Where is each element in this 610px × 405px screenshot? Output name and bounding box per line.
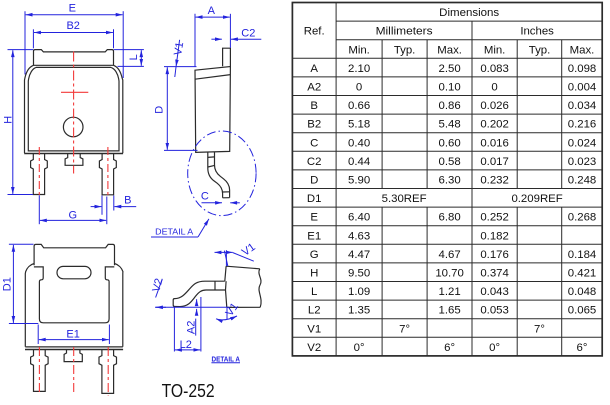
angle V2 xyxy=(150,277,166,307)
svg-text:D: D xyxy=(310,175,318,187)
svg-text:6°: 6° xyxy=(577,342,588,354)
svg-text:D1: D1 xyxy=(1,277,13,291)
svg-text:C2: C2 xyxy=(241,27,255,39)
svg-text:H: H xyxy=(310,268,318,280)
svg-text:V1: V1 xyxy=(172,41,186,56)
dimension G xyxy=(39,195,107,224)
svg-text:L2: L2 xyxy=(308,305,321,317)
angle V1 bottom xyxy=(216,301,241,320)
svg-text:0.252: 0.252 xyxy=(480,212,509,224)
svg-text:7°: 7° xyxy=(399,323,410,335)
svg-text:0.202: 0.202 xyxy=(480,119,509,131)
svg-text:Min.: Min. xyxy=(348,44,370,56)
dimensions table xyxy=(292,3,602,356)
svg-text:Min.: Min. xyxy=(484,44,506,56)
svg-text:DETAIL A: DETAIL A xyxy=(155,228,194,237)
dimension H xyxy=(3,50,34,195)
svg-text:E1: E1 xyxy=(66,329,79,341)
svg-text:0.209REF: 0.209REF xyxy=(511,193,562,205)
svg-text:4.47: 4.47 xyxy=(348,249,370,261)
svg-text:0.66: 0.66 xyxy=(348,100,370,112)
svg-text:D1: D1 xyxy=(307,193,322,205)
svg-text:0: 0 xyxy=(356,82,362,94)
svg-text:V2: V2 xyxy=(307,342,321,354)
svg-text:0.043: 0.043 xyxy=(480,286,509,298)
svg-text:0.016: 0.016 xyxy=(480,137,509,149)
svg-text:A2: A2 xyxy=(186,321,198,334)
svg-text:E1: E1 xyxy=(307,230,321,242)
svg-text:C2: C2 xyxy=(307,156,322,168)
svg-text:Dimensions: Dimensions xyxy=(439,7,499,19)
svg-text:L2: L2 xyxy=(180,339,192,351)
svg-text:6°: 6° xyxy=(444,342,455,354)
seating plane line xyxy=(155,306,229,308)
detail A lead drawing xyxy=(173,266,261,307)
svg-text:E: E xyxy=(310,212,318,224)
dimension L2 xyxy=(174,297,201,352)
svg-text:5.48: 5.48 xyxy=(439,119,461,131)
dimension L xyxy=(114,50,144,67)
svg-text:0.098: 0.098 xyxy=(568,63,597,75)
svg-text:9.50: 9.50 xyxy=(348,268,370,280)
svg-text:0.184: 0.184 xyxy=(568,249,597,261)
dimension C xyxy=(201,191,240,203)
svg-text:6.30: 6.30 xyxy=(439,175,461,187)
svg-text:Millimeters: Millimeters xyxy=(376,26,433,38)
svg-text:B2: B2 xyxy=(307,119,321,131)
svg-text:DETAIL A: DETAIL A xyxy=(212,354,241,363)
svg-text:0.004: 0.004 xyxy=(568,82,597,94)
svg-text:L: L xyxy=(311,286,317,298)
svg-text:0.421: 0.421 xyxy=(568,268,597,280)
svg-text:A: A xyxy=(208,5,216,17)
svg-text:0.60: 0.60 xyxy=(439,137,461,149)
svg-text:A: A xyxy=(310,63,318,75)
svg-text:D: D xyxy=(154,106,166,114)
dimension E1 xyxy=(38,325,109,345)
svg-text:0.023: 0.023 xyxy=(568,156,597,168)
svg-text:0.026: 0.026 xyxy=(480,100,509,112)
svg-text:TO-252: TO-252 xyxy=(162,381,215,400)
dimension D1 xyxy=(1,244,38,323)
svg-text:2.50: 2.50 xyxy=(439,63,461,75)
svg-text:10.70: 10.70 xyxy=(435,268,464,280)
detail ellipse xyxy=(188,131,256,216)
angle V1 side xyxy=(172,40,186,77)
svg-text:V1: V1 xyxy=(307,323,321,335)
svg-text:5.30REF: 5.30REF xyxy=(382,193,427,205)
svg-text:4.67: 4.67 xyxy=(439,249,461,261)
dimension A xyxy=(195,5,230,66)
svg-text:0.232: 0.232 xyxy=(480,175,509,187)
svg-text:0.248: 0.248 xyxy=(568,175,597,187)
front view package body xyxy=(24,50,123,195)
detail A callout xyxy=(151,219,209,237)
dimension D xyxy=(154,67,198,151)
svg-text:6.80: 6.80 xyxy=(439,212,461,224)
svg-text:G: G xyxy=(69,209,78,221)
svg-text:L: L xyxy=(128,54,140,60)
svg-text:0.40: 0.40 xyxy=(348,137,370,149)
svg-text:E: E xyxy=(69,2,76,14)
svg-text:1.65: 1.65 xyxy=(439,305,461,317)
svg-text:5.18: 5.18 xyxy=(348,119,370,131)
svg-text:5.90: 5.90 xyxy=(348,175,370,187)
svg-text:0.083: 0.083 xyxy=(480,63,509,75)
svg-text:0: 0 xyxy=(491,82,497,94)
svg-text:0.176: 0.176 xyxy=(480,249,509,261)
svg-text:C: C xyxy=(310,137,318,149)
svg-text:Typ.: Typ. xyxy=(529,44,551,56)
svg-text:G: G xyxy=(310,249,319,261)
svg-text:0.065: 0.065 xyxy=(568,305,597,317)
svg-text:0.86: 0.86 xyxy=(439,100,461,112)
svg-text:0.216: 0.216 xyxy=(568,119,597,131)
svg-text:4.63: 4.63 xyxy=(348,230,370,242)
svg-text:H: H xyxy=(3,116,15,124)
svg-text:0.268: 0.268 xyxy=(568,212,597,224)
dimension B xyxy=(91,194,137,215)
svg-text:0.017: 0.017 xyxy=(480,156,509,168)
dimension E xyxy=(25,2,123,78)
svg-text:Max.: Max. xyxy=(437,44,462,56)
svg-text:7°: 7° xyxy=(534,323,545,335)
svg-text:0°: 0° xyxy=(354,342,365,354)
svg-text:0.44: 0.44 xyxy=(348,156,370,168)
svg-text:C: C xyxy=(201,191,209,203)
svg-text:B2: B2 xyxy=(66,20,79,32)
bottom view package body xyxy=(25,244,123,393)
svg-text:0.374: 0.374 xyxy=(480,268,509,280)
svg-text:6.40: 6.40 xyxy=(348,212,370,224)
svg-text:1.09: 1.09 xyxy=(348,286,370,298)
dimension A2 xyxy=(186,299,198,335)
dimension C2 xyxy=(211,27,261,39)
svg-text:0.58: 0.58 xyxy=(439,156,461,168)
angle V1 top xyxy=(215,241,258,266)
svg-text:1.35: 1.35 xyxy=(348,305,370,317)
svg-text:Max.: Max. xyxy=(570,44,595,56)
detail A label xyxy=(211,354,240,363)
svg-text:0.034: 0.034 xyxy=(568,100,597,112)
side view lead xyxy=(208,152,230,198)
svg-text:0.053: 0.053 xyxy=(480,305,509,317)
side view package body xyxy=(195,48,230,152)
svg-text:0.024: 0.024 xyxy=(568,137,597,149)
svg-text:B: B xyxy=(310,100,318,112)
svg-text:2.10: 2.10 xyxy=(348,63,370,75)
svg-text:0.10: 0.10 xyxy=(439,82,461,94)
svg-text:0.048: 0.048 xyxy=(568,286,597,298)
svg-text:Ref.: Ref. xyxy=(304,25,325,37)
svg-text:0°: 0° xyxy=(489,342,500,354)
front view center lines xyxy=(39,52,108,196)
svg-text:1.21: 1.21 xyxy=(439,286,461,298)
svg-text:A2: A2 xyxy=(307,82,321,94)
svg-text:0.182: 0.182 xyxy=(480,230,509,242)
bottom view center lines xyxy=(39,347,108,396)
svg-text:Inches: Inches xyxy=(520,26,554,38)
svg-text:Typ.: Typ. xyxy=(394,44,416,56)
dimension B2 xyxy=(33,20,113,48)
svg-text:B: B xyxy=(124,194,131,206)
